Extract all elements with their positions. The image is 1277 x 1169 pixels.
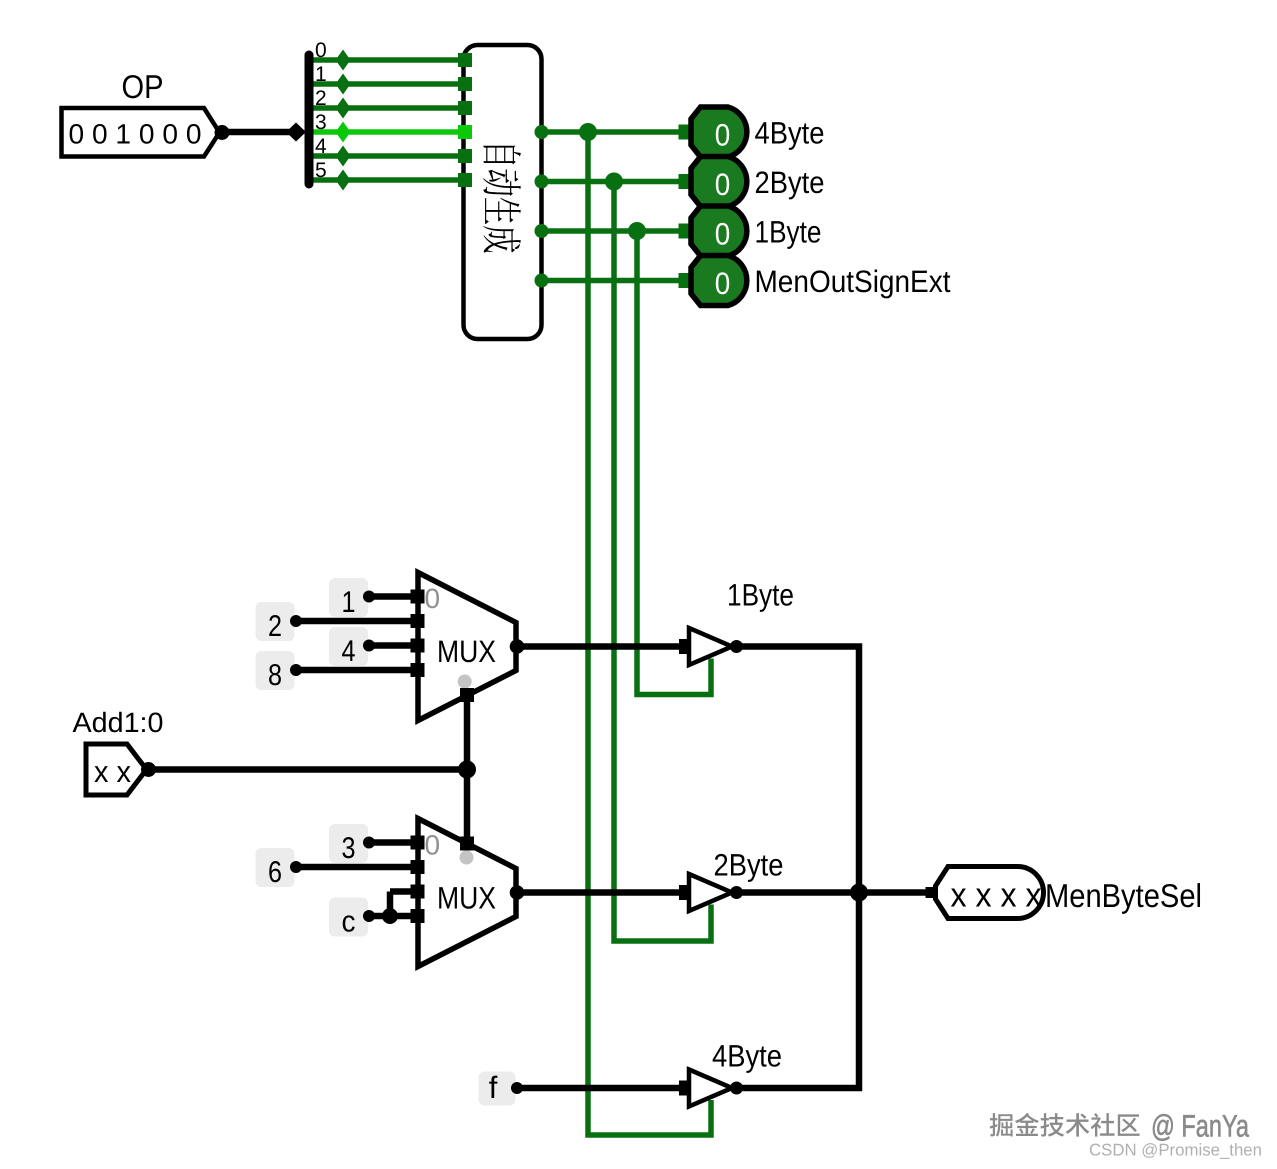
svg-text:4: 4 [315, 135, 327, 158]
tri-state buffer 2Byte [679, 874, 743, 911]
svg-text:4Byte: 4Byte [755, 116, 825, 151]
wire: splitter bit3 to box (value 1, bright) [309, 129, 465, 135]
svg-text:2: 2 [315, 87, 327, 110]
wire: splitter bit5 to box [309, 177, 465, 183]
node: select wire junction on Add1:0 wire [458, 761, 476, 779]
splitter input diamond [286, 123, 306, 142]
svg-text:0: 0 [715, 167, 731, 202]
wire: Add1:0 pin to select junction [148, 766, 467, 773]
constant 4 [329, 627, 375, 668]
wire: constant 4 to MUX1 in2 [369, 642, 417, 649]
svg-text:0: 0 [425, 830, 441, 861]
splitter leg diamond bit1 [336, 74, 351, 95]
wire: 1Byte enable loop [637, 231, 711, 695]
constant 3 [329, 824, 375, 865]
svg-text:3: 3 [315, 111, 327, 134]
port: box output 4Byte [535, 125, 549, 139]
wire: constant 3 to MUX2 in0 [369, 839, 417, 846]
node: junction 1Byte row [628, 222, 646, 240]
wire: f constant to 4Byte buffer [517, 1085, 680, 1092]
svg-text:2: 2 [268, 610, 282, 643]
svg-text:OP: OP [122, 68, 164, 105]
port: box input bit3 [458, 125, 472, 139]
wire: constant 8 to MUX1 in3 [296, 667, 417, 674]
svg-text:0: 0 [715, 266, 731, 301]
port: box input bit1 [458, 77, 472, 91]
wire: box output 1Byte row [542, 228, 680, 234]
svg-text:4Byte: 4Byte [712, 1039, 782, 1074]
svg-text:1Byte: 1Byte [727, 578, 794, 613]
svg-text:6: 6 [268, 856, 282, 889]
svg-text:MenByteSel: MenByteSel [1045, 877, 1202, 914]
svg-text:0: 0 [715, 118, 731, 153]
wire: splitter bit2 to box [309, 105, 465, 111]
svg-text:1: 1 [342, 586, 356, 619]
splitter leg diamond bit0 [336, 50, 351, 71]
wire: 2Byte buffer output to bus and MenByteSel pin [736, 889, 927, 896]
node: bus junction at 2Byte row [850, 884, 868, 902]
mux MUX1 (byte select) [411, 573, 525, 721]
wire: MUX1 output to 1Byte buffer [516, 643, 680, 650]
constant 8 [256, 651, 303, 692]
svg-text:2Byte: 2Byte [755, 165, 825, 200]
tri-state buffer 1Byte [679, 628, 743, 665]
splitter leg diamond bit2 [336, 98, 351, 119]
output pin 4Byte (LED) [679, 107, 747, 157]
wire: select junction to MUX1 select [464, 694, 471, 770]
svg-text:3: 3 [342, 832, 356, 865]
subcircuit label 自动生成 (rotated) [483, 146, 521, 253]
svg-text:c: c [342, 906, 356, 939]
tri-state buffer 4Byte [679, 1070, 743, 1107]
svg-text:MUX: MUX [437, 634, 496, 669]
wire: splitter bit0 to box [309, 57, 465, 63]
mux MUX2 (halfword select) [411, 819, 525, 967]
svg-text:0: 0 [425, 583, 441, 614]
svg-text:x x: x x [94, 756, 131, 789]
wire: constant 2 to MUX1 in1 [296, 618, 417, 625]
wire: output bus right side [736, 647, 859, 1089]
svg-text:1Byte: 1Byte [755, 215, 822, 250]
wire: c branch riser [387, 892, 394, 917]
port: box input bit4 [458, 149, 472, 163]
wire: box output MenOutSignExt row [542, 278, 680, 284]
output pin 2Byte (LED) [679, 157, 747, 207]
port: box input bit2 [458, 101, 472, 115]
wire: 4Byte enable loop [588, 132, 711, 1135]
wire: 2Byte enable loop [614, 182, 711, 942]
port: box output 2Byte [535, 175, 549, 189]
svg-text:0: 0 [315, 39, 327, 62]
splitter spine [305, 55, 314, 184]
input pin Add1:0 [86, 744, 156, 795]
node: junction on constant c wire [382, 908, 398, 924]
svg-text:MUX: MUX [437, 881, 496, 916]
port: box output 1Byte [535, 224, 549, 238]
svg-text:Add1:0: Add1:0 [73, 707, 164, 738]
svg-text:2Byte: 2Byte [714, 848, 784, 883]
wire: constant 1 to MUX1 in0 [369, 593, 417, 600]
svg-text:8: 8 [268, 659, 282, 692]
constant 2 [256, 602, 303, 643]
output pin 1Byte (LED) [679, 206, 747, 256]
svg-text:MenOutSignExt: MenOutSignExt [755, 264, 951, 299]
subcircuit 自动生成 box [464, 45, 542, 339]
wire: OP pin to splitter [223, 129, 300, 136]
output pin MenOutSignExt (LED) [679, 256, 747, 306]
svg-text:@ FanYa: @ FanYa [1151, 1109, 1250, 1144]
wire: MUX2 output to 2Byte buffer [516, 889, 680, 896]
wire: constant c to MUX2 in3 [369, 913, 417, 920]
svg-text:4: 4 [342, 635, 356, 668]
wire: splitter bit1 to box [309, 81, 465, 87]
splitter leg diamond bit5 [336, 170, 351, 191]
constant f [479, 1070, 524, 1106]
node: junction 2Byte row [605, 173, 623, 191]
watermark line 1 [990, 1109, 1252, 1147]
constant c [329, 898, 375, 939]
splitter leg diamond bit4 [336, 146, 351, 167]
svg-text:1: 1 [315, 63, 327, 86]
wire: splitter bit4 to box [309, 153, 465, 159]
node: junction 4Byte row [579, 123, 597, 141]
wire: box output 2Byte row [542, 179, 680, 185]
splitter leg diamond bit3 [336, 122, 351, 143]
svg-text:x x x x: x x x x [951, 877, 1042, 915]
input pin OP [62, 108, 230, 157]
wire: c branch to MUX2 in2 [390, 888, 417, 895]
wire: select junction to MUX2 select [464, 770, 471, 845]
port: box output MenOutSignExt [535, 274, 549, 288]
constant 6 [256, 848, 303, 889]
port: box input bit0 [458, 53, 472, 67]
constant 1 [329, 578, 375, 619]
wire: box output 4Byte row [542, 129, 680, 135]
svg-text:5: 5 [315, 159, 327, 182]
port: box input bit5 [458, 173, 472, 187]
svg-text:f: f [489, 1070, 498, 1105]
wire: constant 6 to MUX2 in1 [296, 864, 417, 871]
svg-text:0: 0 [715, 217, 731, 252]
svg-text:0 0 1 0 0 0: 0 0 1 0 0 0 [69, 119, 202, 150]
svg-text:CSDN @Promise_then: CSDN @Promise_then [1089, 1141, 1262, 1160]
output pin MenByteSel [926, 867, 1044, 919]
